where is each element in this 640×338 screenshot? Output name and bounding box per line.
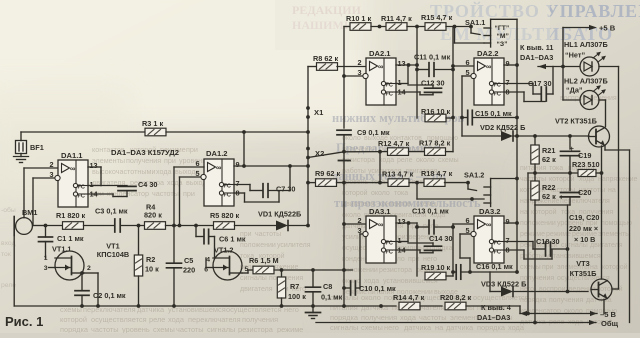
ground symbol — [306, 306, 321, 319]
resistor R3 — [142, 119, 166, 136]
wire DA3.2 pin5 feedback — [460, 234, 472, 274]
svg-text:R9 62 к: R9 62 к — [315, 169, 340, 178]
svg-text:R20 8,2 к: R20 8,2 к — [440, 293, 472, 302]
svg-text:на: на — [520, 209, 528, 216]
wire R3 to bus X — [166, 130, 310, 134]
svg-text:R5 820 к: R5 820 к — [210, 211, 240, 220]
label DA1-DA3 K157UD2 — [111, 148, 179, 157]
svg-text:13: 13 — [90, 161, 98, 170]
wire R20 to -5V corner — [466, 306, 520, 314]
svg-text:установившемся: установившемся — [546, 253, 601, 260]
svg-text:“Да”: “Да” — [566, 86, 583, 95]
svg-text:X1: X1 — [314, 108, 324, 117]
svg-text:R1 820 к: R1 820 к — [56, 211, 86, 220]
svg-text:ток: ток — [1, 251, 11, 258]
svg-text:схемы: схемы — [361, 323, 383, 332]
wire R13-R18 — [409, 181, 425, 185]
svg-text:C7 30: C7 30 — [276, 185, 295, 194]
resistor R12 4.7k — [378, 139, 410, 155]
svg-text:C1 1 мк: C1 1 мк — [57, 234, 84, 243]
svg-text:–5 В: –5 В — [600, 310, 617, 319]
microphone BM1 — [14, 208, 37, 236]
svg-text:двигателя: двигателя — [240, 286, 273, 293]
svg-text:получения: получения — [126, 156, 161, 165]
svg-text:1: 1 — [398, 78, 402, 87]
svg-text:R21: R21 — [542, 146, 555, 155]
svg-text:получения: получения — [242, 315, 278, 324]
svg-text:при: при — [542, 264, 554, 271]
resistor R11 4.7k — [381, 14, 412, 30]
wire VT1.2 gate stub — [206, 258, 213, 268]
svg-text:C12 30: C12 30 — [421, 79, 445, 88]
svg-text:VD3 КД522 Б: VD3 КД522 Б — [481, 280, 526, 289]
svg-text:на: на — [435, 323, 444, 332]
capacitor C19 220u — [561, 136, 592, 175]
svg-text:сигналы: сигналы — [330, 323, 358, 332]
wire R18 to SA1.2 — [445, 181, 470, 185]
ground rail (bottom) — [14, 304, 396, 308]
svg-text:датчика: датчика — [361, 303, 389, 312]
svg-text:1: 1 — [398, 236, 402, 245]
capacitor C11 0.1 — [414, 53, 455, 77]
svg-text:VT3: VT3 — [576, 259, 590, 268]
svg-text:питания: питания — [520, 165, 546, 172]
svg-text:9: 9 — [236, 160, 240, 169]
svg-text:R16 10 к: R16 10 к — [421, 107, 451, 116]
svg-text:VT1.1: VT1.1 — [52, 245, 71, 254]
svg-text:R14 4,7 к: R14 4,7 к — [393, 293, 425, 302]
wire DA1.2 pin6 bias — [174, 166, 204, 168]
svg-text:C9 0,1 мк: C9 0,1 мк — [357, 128, 390, 137]
svg-text:датчика: датчика — [446, 323, 474, 332]
svg-text:13: 13 — [398, 217, 406, 226]
svg-text:C5: C5 — [184, 256, 193, 265]
capacitor C6 1uF — [196, 226, 246, 259]
svg-text:∞: ∞ — [486, 220, 491, 229]
wire C15 down to VD2 anode — [461, 118, 463, 137]
svg-text:КТ351Б: КТ351Б — [570, 269, 598, 278]
svg-text:100 к: 100 к — [288, 292, 306, 301]
svg-text:SA1.2: SA1.2 — [464, 171, 484, 180]
svg-text:порядка: порядка — [330, 313, 359, 322]
svg-text:∞: ∞ — [378, 220, 383, 229]
wire R17 right — [446, 151, 454, 153]
resistor R14 4.7k — [393, 293, 425, 310]
op-amp DA2.2 — [465, 49, 509, 105]
resistor R22 62k — [531, 173, 556, 205]
wire R14-R20 — [420, 305, 442, 307]
svg-text:реле: реле — [149, 315, 165, 324]
svg-text:сигналы: сигналы — [240, 275, 267, 282]
svg-text:1: 1 — [44, 255, 48, 262]
svg-text:режиме: режиме — [277, 325, 303, 333]
svg-text:6: 6 — [465, 58, 469, 67]
svg-text:7: 7 — [506, 236, 510, 245]
capacitor C12 30 (pins 1-14) — [396, 65, 445, 95]
capacitor C3 0.1 — [95, 207, 128, 233]
svg-text:“ГТ”: “ГТ” — [495, 25, 510, 32]
svg-text:хода: хода — [167, 178, 183, 187]
svg-text:R8 62 к: R8 62 к — [313, 54, 338, 63]
svg-text:R10 1 к: R10 1 к — [346, 14, 371, 23]
svg-text:HL2 АЛ307Б: HL2 АЛ307Б — [564, 77, 608, 86]
wire C20/R22 bottom node — [535, 205, 570, 323]
label VT1 KPS104V — [97, 242, 129, 260]
wire DA3.1 pin3 from C10 — [360, 234, 362, 288]
svg-text:∞: ∞ — [216, 163, 221, 172]
svg-text:ти прозэкономительность: ти прозэкономительность — [334, 196, 481, 210]
wire DA3.2 pin6 — [453, 223, 474, 225]
svg-text:C19: C19 — [578, 151, 591, 160]
svg-text:C19, C20: C19, C20 — [569, 213, 599, 222]
capacitor C4 30 (pins 1-14) — [88, 180, 157, 197]
svg-text:него: него — [423, 256, 437, 263]
svg-text:хода: хода — [379, 157, 394, 164]
svg-text:R3 1 к: R3 1 к — [142, 119, 163, 128]
svg-text:переключателя: переключателя — [560, 198, 610, 205]
svg-text:+: + — [559, 193, 564, 202]
transistor VT2 KT351B — [555, 117, 610, 148]
wire VT3 collector — [601, 173, 603, 279]
op-amp DA1.1 — [49, 151, 98, 207]
capacitor C8 0.1 — [306, 270, 343, 306]
svg-text:которой: которой — [549, 175, 575, 183]
background page headline (show-through) — [292, 0, 640, 44]
svg-text:+5 В: +5 В — [599, 24, 616, 33]
wire R13/R18 tap to SA1.2 — [417, 183, 484, 201]
svg-text:C10 0,1 мк: C10 0,1 мк — [359, 284, 396, 293]
svg-text:C17 30: C17 30 — [528, 79, 552, 88]
wire R11-R15 — [407, 25, 425, 29]
svg-text:порядка: порядка — [477, 323, 506, 332]
svg-text:резистора: резистора — [379, 267, 412, 274]
svg-text:получения: получения — [361, 313, 397, 322]
resistor R8 62k — [308, 54, 338, 70]
resistor R18 4.7k — [421, 169, 453, 186]
svg-text:SA1.1: SA1.1 — [465, 18, 485, 27]
diode VD2 KD522B — [462, 123, 525, 141]
svg-text:при: при — [164, 156, 176, 165]
resistor R15 4.7k — [421, 13, 453, 30]
wire R5 to VD1 — [235, 225, 277, 227]
ground below BF1 — [14, 154, 29, 163]
wire node -5V row — [526, 171, 578, 315]
wire C9 column x=344 — [342, 27, 346, 226]
resistor R16 10k — [421, 107, 453, 122]
wire BM1 to DA1.1 pin2 — [24, 168, 58, 218]
svg-text:R11 4,7 к: R11 4,7 к — [381, 14, 412, 23]
svg-text:62 к: 62 к — [542, 192, 556, 201]
svg-text:3: 3 — [357, 226, 361, 235]
wire BF1 top to R3 rail — [21, 132, 145, 141]
transistor VT1.2 KPS104 — [204, 246, 248, 281]
svg-text:R2: R2 — [146, 255, 155, 264]
wire VD2 to VT2 base — [513, 134, 589, 138]
label Ris.1 — [5, 314, 43, 329]
wire HL1 cathode right column — [599, 67, 619, 290]
wire C16 to VD3 — [489, 272, 491, 292]
svg-text:КПС104В: КПС104В — [97, 250, 129, 259]
svg-text:“Нет”: “Нет” — [565, 51, 585, 60]
wire +5V — [563, 24, 616, 67]
svg-text:1: 1 — [90, 180, 94, 189]
svg-text:220: 220 — [183, 266, 195, 275]
wire R12-R17 — [409, 151, 426, 153]
svg-text:9: 9 — [506, 59, 510, 68]
wire x=517 column — [515, 19, 519, 272]
wire DA2.1 pin3 — [344, 75, 362, 77]
svg-text:при: при — [183, 189, 195, 198]
svg-text:Общ: Общ — [601, 319, 619, 328]
svg-text:820 к: 820 к — [144, 211, 162, 220]
wire R6 to C8/C10 node — [274, 268, 353, 272]
wire VT1.2 source to R6 — [242, 270, 253, 273]
wire VD1 to bus X — [288, 224, 310, 228]
svg-text:6: 6 — [465, 216, 469, 225]
svg-text:VT2 КТ351Б: VT2 КТ351Б — [555, 117, 597, 126]
capacitor C5 220 — [167, 167, 196, 306]
resistor R9 62k — [306, 169, 340, 186]
capacitor C18 30 (pins 7-8) — [504, 237, 569, 259]
resistor R7 100k — [277, 270, 306, 306]
svg-text:частоты: частоты — [419, 313, 447, 322]
wire X2 row — [308, 150, 388, 158]
svg-text:R23 510: R23 510 — [572, 160, 600, 169]
svg-text:R22: R22 — [542, 183, 555, 192]
svg-text:0,1 мк: 0,1 мк — [321, 293, 343, 302]
svg-text:хода: хода — [156, 167, 172, 176]
capacitor C2 0.1 — [75, 271, 126, 306]
wire DA2.2 output — [504, 63, 519, 67]
svg-text:62 к: 62 к — [542, 155, 556, 164]
svg-text:3: 3 — [357, 68, 361, 77]
svg-text:R19 10 к: R19 10 к — [421, 263, 451, 272]
resistor R10 1k — [346, 14, 371, 30]
svg-text:схемы: схемы — [153, 325, 175, 333]
wire common rail — [316, 319, 619, 328]
svg-text:9: 9 — [506, 217, 510, 226]
wire R12/R13 link — [379, 152, 381, 183]
svg-text:2: 2 — [357, 216, 361, 225]
wire R1 to C3 — [84, 225, 115, 227]
svg-text:× 10 В: × 10 В — [574, 235, 595, 244]
svg-text:него: него — [384, 323, 399, 332]
svg-text:13: 13 — [398, 59, 406, 68]
svg-text:частоты: частоты — [255, 231, 281, 238]
svg-text:около: около — [416, 157, 435, 164]
svg-text:3: 3 — [49, 170, 53, 179]
svg-text:“М”: “М” — [497, 33, 509, 40]
diode VD1 KD522B — [258, 210, 301, 231]
svg-text:R18 4,7 к: R18 4,7 к — [421, 169, 453, 178]
svg-text:R12 4,7 к: R12 4,7 к — [378, 139, 410, 148]
capacitor C15 0.1 — [462, 109, 519, 125]
resistor R17 8.2k — [419, 139, 451, 156]
svg-text:C20: C20 — [578, 188, 591, 197]
svg-text:хода: хода — [400, 313, 417, 322]
wire C3 to node B — [121, 224, 145, 228]
svg-text:на: на — [608, 187, 616, 194]
svg-text:хода: хода — [508, 323, 525, 332]
svg-text:тока: тока — [549, 165, 563, 172]
svg-text:C13 0,1 мк: C13 0,1 мк — [412, 207, 449, 216]
svg-text:осуществляется: осуществляется — [91, 315, 147, 324]
wire DA2.1 pin13 out — [396, 63, 417, 67]
wire VT3 emitter — [603, 300, 605, 314]
wire x=417 column lower — [415, 223, 419, 276]
svg-text:-обы: -обы — [1, 206, 16, 214]
resistor R5 820k — [210, 211, 240, 229]
resistor R21 62k — [531, 136, 556, 173]
wire VT1.1 source to C2/node — [84, 273, 98, 306]
svg-text:напряжение: напряжение — [598, 176, 638, 183]
switch SA1.2 — [464, 171, 517, 207]
svg-text:DA3.2: DA3.2 — [479, 207, 501, 216]
svg-text:DA1–DA3: DA1–DA3 — [477, 313, 510, 322]
op-amp DA3.1 — [357, 207, 406, 263]
svg-text:7: 7 — [236, 179, 240, 188]
svg-text:C16 0,1 мк: C16 0,1 мк — [476, 262, 513, 271]
svg-text:порядка: порядка — [60, 325, 89, 333]
capacitor C10 0.1 — [342, 281, 396, 295]
wire DA1.2 pin5 feedback — [180, 177, 200, 226]
svg-text:реле: реле — [397, 157, 413, 164]
wire DA2.2 pin6 — [453, 65, 474, 67]
resistor R1 820k — [56, 211, 86, 229]
wire DA1.1 pin3 left down — [33, 178, 54, 226]
wire VT2 emitter/R23 node — [600, 146, 604, 175]
svg-text:хода: хода — [168, 315, 185, 324]
svg-text:C6 1 мк: C6 1 мк — [219, 235, 246, 244]
svg-text:C3 0,1 мк: C3 0,1 мк — [95, 207, 128, 216]
terminal X2 — [315, 149, 324, 158]
op-amp DA1.2 — [195, 149, 239, 206]
diode VD3 KD522B — [481, 280, 526, 297]
wire K vyv.11 with arrow — [520, 43, 580, 69]
wire R8 to DA2.1 pin2 — [337, 66, 366, 68]
svg-text:переключателя: переключателя — [188, 315, 241, 324]
svg-text:R13 4,7 к: R13 4,7 к — [382, 170, 414, 179]
svg-text:3: 3 — [44, 265, 48, 272]
wire node A to R1 — [46, 225, 64, 227]
wire -5V arrow line — [520, 310, 617, 319]
transistor VT3 KT351B — [570, 259, 612, 300]
wire DA1.1 pin13/pin1 — [88, 167, 101, 186]
svg-text:вход: вход — [1, 240, 16, 247]
svg-text:∞: ∞ — [486, 62, 491, 71]
svg-text:HL1 АЛ307Б: HL1 АЛ307Б — [564, 40, 608, 49]
label C19 C20 values — [569, 213, 599, 244]
svg-text:220 мк ×: 220 мк × — [569, 224, 598, 233]
wire VT2 emitter down — [605, 146, 630, 323]
wire DA1.2 output up to R3 rail — [234, 132, 310, 168]
svg-text:2: 2 — [87, 265, 91, 272]
svg-text:∞: ∞ — [70, 164, 75, 173]
svg-text:DA2.2: DA2.2 — [477, 49, 499, 58]
capacitor C14 30 (pins 1-14) — [396, 223, 453, 253]
wire x=417 column — [415, 27, 419, 119]
svg-text:получения: получения — [549, 297, 583, 304]
LED HL1 AL307B — [564, 40, 608, 76]
resistor R20 8.2k — [440, 293, 472, 310]
svg-text:которой: которой — [602, 263, 628, 271]
svg-text:К выв. 4: К выв. 4 — [481, 303, 512, 312]
wire R9 to R13 — [337, 181, 389, 185]
svg-text:К выв. 11: К выв. 11 — [520, 43, 553, 52]
wire top rail left — [344, 26, 350, 28]
svg-text:DA1–DA3 К157УД2: DA1–DA3 К157УД2 — [111, 148, 179, 157]
svg-text:2: 2 — [49, 160, 53, 169]
svg-text:схемы: схемы — [438, 157, 459, 164]
wire DA3.2 output — [504, 222, 517, 224]
svg-text:C18 30: C18 30 — [536, 237, 560, 246]
capacitor C16 0.1 — [453, 262, 519, 279]
resistor R13 4.7k — [382, 170, 414, 187]
svg-text:около: около — [361, 293, 381, 302]
svg-text:VT1.2: VT1.2 — [214, 246, 233, 255]
capacitor C9 0.1 — [337, 128, 390, 306]
svg-text:усилителя: усилителя — [277, 242, 311, 249]
sensor BF1 — [16, 141, 44, 154]
svg-text:уровень: уровень — [179, 156, 206, 165]
svg-text:осуществляется: осуществляется — [473, 293, 529, 302]
svg-text:датчика: датчика — [404, 323, 432, 332]
svg-text:R7: R7 — [290, 282, 299, 291]
svg-text:частоты: частоты — [176, 325, 204, 333]
capacitor C1 1uF — [39, 226, 84, 259]
svg-text:элементы: элементы — [598, 231, 630, 238]
svg-text:Рис. 1: Рис. 1 — [5, 314, 43, 329]
svg-text:10 к: 10 к — [145, 265, 159, 274]
svg-text:резистора: резистора — [238, 325, 274, 333]
svg-text:при: при — [186, 145, 198, 154]
svg-text:положении: положении — [520, 220, 556, 227]
wire DA3.1 pin13 out — [396, 221, 417, 225]
svg-text:“З”: “З” — [497, 41, 508, 48]
svg-text:DA1–DA3: DA1–DA3 — [520, 53, 553, 62]
wire x=453 column lower — [451, 224, 455, 276]
LED HL2 AL307B — [564, 77, 608, 110]
svg-text:C15 0,1 мк: C15 0,1 мк — [475, 109, 512, 118]
svg-text:частоты: частоты — [91, 325, 119, 333]
svg-text:сигналы: сигналы — [207, 325, 235, 333]
svg-text:7: 7 — [506, 78, 510, 87]
label K vyv 4 — [477, 303, 512, 322]
svg-text:4: 4 — [206, 257, 210, 264]
wire BM1 membrane to ground rail — [13, 230, 15, 306]
svg-text:помощью: помощью — [601, 220, 632, 227]
resistor R19 10k — [421, 263, 453, 280]
resistor R4 820k — [144, 203, 166, 230]
svg-text:DA1.1: DA1.1 — [61, 151, 83, 160]
capacitor C7 30 (pins 7-8) — [234, 166, 295, 202]
svg-text:R15 4,7 к: R15 4,7 к — [421, 13, 453, 22]
resistor R6 1.5M — [249, 256, 279, 274]
svg-text:C8: C8 — [323, 282, 332, 291]
resistor R23 510 — [572, 160, 602, 177]
svg-text:которой: которой — [60, 315, 87, 324]
resistor R2 10k — [134, 226, 159, 307]
svg-text:частоты: частоты — [152, 189, 179, 198]
switch SA1.1 — [465, 18, 517, 48]
wire Z-contact from rail — [455, 27, 485, 44]
wire VD3 to VT3 base — [513, 290, 588, 294]
svg-text:R17 8,2 к: R17 8,2 к — [419, 139, 451, 148]
svg-text:C14 30: C14 30 — [429, 234, 453, 243]
wire DA3.1 pin2 — [344, 223, 366, 225]
wire VT1.1 gate — [49, 267, 56, 269]
svg-text:R6 1,5 М: R6 1,5 М — [249, 256, 279, 265]
